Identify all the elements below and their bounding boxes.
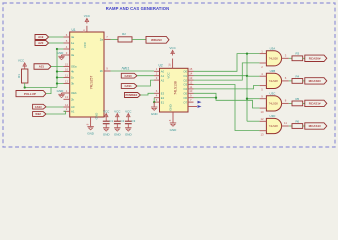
svg-text:VCC: VCC	[169, 46, 176, 50]
svg-text:C3: C3	[132, 119, 136, 123]
svg-text:R3: R3	[295, 52, 299, 56]
wire WE# to U1 A1	[46, 111, 66, 114]
wire O4 to gate B input 5	[194, 86, 260, 89]
svg-text:RCAS1#: RCAS1#	[309, 102, 321, 106]
svg-text:U2: U2	[159, 64, 163, 68]
svg-text:1b: 1b	[71, 76, 75, 80]
svg-text:GND: GND	[151, 112, 159, 116]
svg-text:E2: E2	[161, 96, 165, 100]
AND gate U3B	[260, 69, 289, 91]
svg-text:A1: A1	[161, 74, 165, 78]
junction O6 join	[215, 97, 217, 99]
svg-text:OEb: OEb	[71, 91, 77, 95]
svg-text:GND: GND	[87, 132, 95, 136]
svg-text:E1: E1	[161, 100, 165, 104]
resistor R5	[292, 97, 303, 106]
U2 name label	[159, 64, 163, 68]
wire R1 to pullup net	[25, 83, 57, 88]
svg-text:10: 10	[260, 110, 264, 114]
svg-text:R6: R6	[295, 119, 299, 123]
U2 GND pin stub	[168, 112, 173, 123]
svg-text:16: 16	[168, 63, 172, 67]
wire R3 to flag	[303, 57, 305, 59]
svg-text:R1: R1	[17, 74, 21, 78]
AND gate U3C	[260, 92, 289, 114]
svg-text:A1: A1	[71, 109, 75, 113]
resistor R1	[17, 69, 28, 83]
wire /WE1 net	[111, 70, 155, 72]
wire gate to R6	[289, 125, 292, 127]
capacitor C1 with VCC and ground	[103, 109, 114, 136]
net flag CAS0	[121, 73, 137, 78]
wire PULLUP to net	[46, 88, 51, 94]
wire R6 to flag	[303, 125, 305, 127]
net flag PCMWE#	[125, 93, 141, 98]
resistor R2	[118, 32, 132, 42]
power VCC above U2	[169, 46, 176, 55]
net flag MCAS1#	[305, 123, 327, 129]
U2 GND pin name vertical	[168, 104, 172, 110]
svg-text:74LS138: 74LS138	[173, 81, 177, 95]
net flag A21	[34, 64, 51, 70]
svg-text:2b: 2b	[100, 69, 104, 73]
U1 name label	[72, 28, 76, 32]
svg-text:OEa: OEa	[71, 65, 77, 69]
U1 GND pin name vertical	[95, 112, 99, 120]
wire gate to R4	[289, 80, 292, 82]
net flag CAS1	[121, 84, 137, 89]
IC U2 body	[160, 68, 189, 112]
svg-text:CAS0: CAS0	[124, 74, 132, 78]
ground below U1	[87, 127, 95, 136]
net flag MCAS0#	[305, 78, 327, 84]
net flag WE#	[33, 112, 46, 117]
resistor R3	[292, 52, 303, 61]
IC U1 body	[70, 32, 104, 117]
junction bus 3b	[56, 82, 58, 84]
svg-text:A2: A2	[161, 78, 165, 82]
ground at U1 3a	[57, 51, 65, 60]
svg-text:13: 13	[260, 133, 264, 137]
wire A21 to U1 OEa	[51, 66, 64, 68]
ground at U1 OEb	[57, 89, 65, 98]
net flag RCAS1#	[305, 100, 327, 106]
svg-text:C2: C2	[121, 119, 125, 123]
wire 3a to ground bar	[62, 55, 64, 56]
wire common tap gate D input 12	[247, 120, 260, 122]
title text	[106, 6, 169, 11]
wire CAS# to U1 A0	[46, 106, 64, 108]
wire O0 to gate A input 1	[194, 54, 260, 72]
svg-text:E3: E3	[161, 91, 165, 95]
svg-text:VCC: VCC	[83, 41, 87, 48]
svg-text:R4: R4	[295, 74, 299, 78]
junction R1 corner	[24, 86, 26, 88]
svg-text:O7: O7	[183, 100, 187, 104]
bus tap marker at U2 pin 7	[198, 101, 202, 104]
svg-text:O0: O0	[183, 69, 187, 73]
schematic frame (dashed)	[3, 3, 335, 147]
svg-text:U1: U1	[72, 28, 76, 32]
svg-text:11: 11	[284, 121, 287, 125]
svg-text:13: 13	[65, 95, 69, 99]
junction bus top	[56, 48, 58, 50]
U2 value 74LS138 vertical	[173, 81, 177, 95]
ground below U2	[170, 123, 178, 132]
svg-text:WE#: WE#	[35, 112, 41, 116]
svg-text:14: 14	[189, 72, 193, 76]
svg-text:13: 13	[189, 76, 193, 80]
svg-text:74LS08: 74LS08	[269, 102, 279, 106]
svg-text:GND: GND	[114, 133, 122, 137]
svg-text:2b: 2b	[71, 97, 75, 101]
U2 VCC pin name vertical	[167, 72, 171, 78]
svg-text:RAMP AND CAS GENERATION: RAMP AND CAS GENERATION	[106, 6, 169, 11]
ground at U2 E pins	[151, 102, 159, 116]
svg-text:O6: O6	[183, 96, 187, 100]
svg-text:R2: R2	[122, 32, 126, 36]
U1 VCC pin name vertical	[83, 41, 87, 48]
svg-text:U3A: U3A	[270, 47, 276, 51]
U1 GND pin stub	[86, 117, 91, 126]
svg-text:VCC: VCC	[125, 109, 132, 113]
U1 value 74LS257 vertical	[90, 76, 94, 90]
svg-text:GND: GND	[95, 112, 99, 120]
wire U2 E1-E2 ground tie	[153, 98, 155, 102]
svg-text:4a: 4a	[71, 35, 75, 39]
svg-text:VCC: VCC	[84, 14, 91, 18]
U2 VCC pin stub	[168, 59, 173, 69]
junction E1 tie	[153, 101, 155, 103]
resistor R4	[292, 74, 303, 83]
svg-text:PCMWE#: PCMWE#	[125, 93, 137, 97]
capacitor C2 with VCC and ground	[114, 109, 125, 136]
wire O6 join	[194, 97, 217, 99]
junction common gate A	[246, 52, 248, 54]
net flag A19	[35, 35, 49, 40]
svg-text:VCC: VCC	[103, 109, 110, 113]
wire bus tap 4b	[57, 71, 64, 73]
net flag A20	[35, 41, 49, 46]
svg-text:MCAS1#: MCAS1#	[309, 124, 322, 128]
wire gate to R5	[289, 102, 292, 104]
net flag CAS#	[33, 104, 46, 109]
U2 left pins with numbers and names	[154, 67, 165, 104]
wire bus tap 2a	[57, 48, 64, 50]
svg-text:RCAS0#: RCAS0#	[309, 56, 321, 60]
svg-text:1a: 1a	[71, 41, 75, 45]
svg-text:O3: O3	[183, 83, 187, 87]
svg-text:GND: GND	[57, 89, 65, 93]
svg-text:10: 10	[189, 89, 193, 93]
resistor R6	[292, 119, 303, 128]
AND gate U3A	[260, 47, 289, 69]
svg-text:GND: GND	[125, 133, 133, 137]
svg-text:GND: GND	[170, 128, 178, 132]
svg-text:VCC: VCC	[18, 59, 25, 63]
svg-text:11: 11	[65, 73, 68, 77]
U2 right pins with numbers and names	[183, 67, 193, 104]
svg-text:O4: O4	[183, 87, 187, 91]
svg-text:U3C: U3C	[270, 92, 276, 96]
svg-text:74LS08: 74LS08	[269, 124, 279, 128]
junction common gate C	[246, 98, 248, 100]
wire R2 to flag	[132, 38, 146, 40]
wire CAS1 to U2 A2	[137, 80, 154, 86]
junction bus 4b	[56, 70, 58, 72]
svg-text:A19: A19	[38, 35, 44, 39]
svg-text:3b: 3b	[71, 82, 75, 86]
wire gate to R3	[289, 57, 292, 59]
junction bus 1b	[56, 76, 58, 78]
svg-text:WRAS#: WRAS#	[151, 38, 162, 42]
svg-text:VCC: VCC	[167, 72, 171, 78]
svg-text:74LS08: 74LS08	[269, 56, 279, 60]
svg-text:/WE1: /WE1	[122, 66, 130, 70]
AND gate U3D	[260, 114, 289, 136]
svg-text:2a: 2a	[71, 47, 75, 51]
power VCC above R1	[18, 59, 27, 68]
wire VCC to R1	[24, 68, 26, 69]
svg-text:12: 12	[260, 117, 264, 121]
svg-text:GND: GND	[103, 133, 111, 137]
svg-text:A0: A0	[161, 69, 165, 73]
wire R5 to flag	[303, 102, 305, 104]
U1 left pins with numbers and names	[64, 33, 78, 114]
wire PCMWE# to U2 E3	[140, 93, 154, 95]
svg-text:O1: O1	[183, 74, 187, 78]
wire common tap gate B input 4	[247, 75, 260, 77]
svg-text:GND: GND	[57, 51, 65, 55]
net flag WRAS#	[146, 36, 169, 43]
net label /WE1	[122, 66, 130, 70]
svg-text:GND: GND	[168, 104, 172, 110]
svg-text:VCC: VCC	[114, 109, 121, 113]
wire CAS0 to U2 A1	[137, 75, 154, 77]
capacitor C3 with VCC and ground	[125, 109, 136, 136]
svg-text:CAS1: CAS1	[124, 84, 132, 88]
U1 pin 9 output 2b	[100, 67, 111, 74]
wire bus tap 3b	[57, 83, 64, 85]
wire common CAS vertical	[246, 54, 248, 122]
svg-text:15: 15	[189, 67, 193, 71]
svg-text:12: 12	[65, 79, 69, 83]
power VCC above U1	[84, 14, 91, 23]
svg-text:16: 16	[82, 29, 86, 33]
svg-text:U3D: U3D	[270, 114, 276, 118]
unconnected stub below U2 pin 7	[188, 106, 197, 108]
svg-text:MCAS0#: MCAS0#	[309, 79, 322, 83]
U1 VCC pin stub	[82, 26, 87, 33]
svg-text:10: 10	[65, 67, 69, 71]
wire OEb to ground bar	[62, 93, 64, 94]
svg-text:O5: O5	[183, 91, 187, 95]
wire common tap gate C input 9	[247, 98, 260, 100]
svg-text:R5: R5	[295, 97, 299, 101]
svg-text:A20: A20	[38, 41, 44, 45]
svg-text:PULLUP: PULLUP	[24, 92, 36, 96]
wire A19 to U1 4a	[49, 36, 64, 38]
wire O3 to gate D input 13	[194, 85, 260, 131]
svg-text:3a: 3a	[71, 53, 75, 57]
svg-text:O2: O2	[183, 78, 187, 82]
svg-text:11: 11	[189, 85, 192, 89]
wire O5 to gate C input 10	[194, 93, 260, 108]
svg-text:CAS#: CAS#	[35, 105, 42, 109]
wire A20 to U1 1a	[49, 42, 64, 44]
svg-text:12: 12	[189, 80, 193, 84]
svg-text:15: 15	[65, 62, 69, 66]
svg-text:4b: 4b	[71, 70, 75, 74]
U1 pin 7 output 2a	[100, 35, 111, 42]
svg-text:74LS257: 74LS257	[90, 76, 94, 90]
svg-text:U3B: U3B	[270, 69, 276, 73]
svg-text:74LS08: 74LS08	[269, 79, 279, 83]
svg-text:C1: C1	[109, 119, 113, 123]
wire O2 to gate A input 2	[194, 63, 260, 80]
net flag RCAS0#	[305, 55, 327, 61]
net flag PULLUP	[16, 91, 46, 97]
wire U1 2a to R2	[111, 38, 119, 40]
svg-text:A21: A21	[39, 65, 45, 69]
bus tap marker below pin 7	[198, 105, 202, 108]
svg-text:2a: 2a	[100, 38, 104, 42]
wire O1 into common	[194, 75, 248, 77]
junction common O1	[246, 75, 248, 77]
wire bus tap 1b	[57, 77, 64, 79]
wire pullup bus vertical	[56, 49, 58, 88]
wire R4 to flag	[303, 80, 305, 82]
